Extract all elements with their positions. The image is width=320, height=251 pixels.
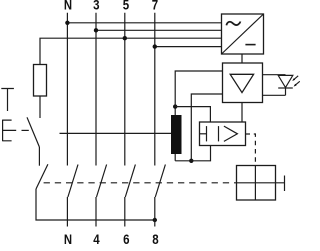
- amplifier triangle: [230, 74, 253, 92]
- node bus C junction: [123, 36, 127, 40]
- test pole contact blade: [36, 164, 48, 189]
- wire amplifier to detector: [241, 103, 243, 123]
- svg-text:8: 8: [152, 232, 158, 246]
- current transformer core line: [60, 132, 172, 134]
- wire CT top node to detector: [175, 107, 210, 122]
- main contact blade pole 7-8: [155, 165, 165, 198]
- power supply diagonal: [222, 14, 264, 54]
- svg-text:6: 6: [123, 232, 129, 246]
- conductor 6 lower segment: [124, 197, 126, 227]
- mechanical trip linkage dashed: [44, 182, 237, 184]
- main contact blade pole N: [68, 165, 78, 198]
- detector bar 2: [218, 126, 220, 141]
- trip coil armature end bar: [284, 176, 286, 192]
- test button T symbol: [1, 89, 14, 112]
- node bottom wire junction: [189, 159, 193, 163]
- svg-text:5: 5: [123, 0, 129, 14]
- wire amplifier to bottom node: [191, 94, 222, 161]
- svg-text:N: N: [64, 0, 72, 14]
- detector input stub: [200, 133, 207, 135]
- node bus A junction: [65, 21, 69, 25]
- wire CT top to amplifier: [175, 71, 222, 107]
- amplifier U2 box: [223, 63, 263, 103]
- svg-text:4: 4: [93, 232, 99, 246]
- trip coil K1 box: [237, 166, 276, 201]
- current transformer secondary winding: [171, 115, 182, 154]
- power supply AC tilde: [226, 22, 240, 26]
- wire LED to amplifier return: [263, 94, 286, 96]
- main contact blade pole 5-6: [125, 165, 135, 198]
- push button actuator symbol: [3, 120, 17, 142]
- conductor N upper segment: [66, 13, 68, 166]
- detector I> box: [200, 122, 246, 146]
- LED cathode bar: [278, 87, 293, 89]
- conductor 5 upper segment: [124, 13, 126, 166]
- wire bus D from 7 to converter: [155, 46, 222, 48]
- conductor N lower segment: [66, 197, 68, 227]
- LED D1: [278, 75, 293, 87]
- trip coil vertical line: [254, 166, 256, 201]
- svg-text:3: 3: [93, 0, 99, 14]
- wire bus C from test resistor to converter: [40, 38, 222, 64]
- conductor 4 lower segment: [95, 197, 97, 227]
- LED arrow 2: [294, 81, 300, 86]
- svg-text:N: N: [64, 232, 72, 246]
- test button contact blade: [27, 117, 39, 147]
- svg-text:7: 7: [152, 0, 158, 14]
- detector bar 1: [206, 126, 208, 141]
- LED arrow 1: [292, 76, 298, 81]
- main contact blade pole 3-4: [97, 165, 107, 198]
- wire resistor to test contact: [39, 96, 41, 118]
- node bus D junction: [153, 44, 157, 48]
- wire test pole to bottom bus: [36, 189, 155, 220]
- wire CT bottom to detector: [175, 146, 210, 161]
- wire LED cathode: [285, 88, 287, 95]
- conductor 7 upper segment: [154, 13, 156, 166]
- wire bus B from 3 to converter: [96, 29, 222, 31]
- node bus B junction: [94, 28, 98, 32]
- power supply U1 box: [222, 14, 264, 54]
- conductor 8 lower segment: [154, 197, 156, 227]
- wire CT bottom lead: [174, 154, 176, 161]
- trip coil horizontal line with armature stub: [237, 182, 285, 184]
- mechanical link actuator to test blade: [22, 129, 29, 131]
- node bottom bus junction on 8: [153, 218, 157, 222]
- resistor R test: [34, 65, 47, 97]
- wire supply to amplifier: [241, 54, 243, 63]
- conductor 3 upper segment: [95, 13, 97, 166]
- mechanical link detector to trip coil dashed: [246, 134, 256, 166]
- wire amplifier to LED anode: [263, 74, 286, 76]
- wire test contact to test pole: [38, 147, 40, 166]
- wire CT top lead: [174, 107, 176, 115]
- detector greater-than: [224, 126, 238, 141]
- node CT top junction: [173, 104, 177, 108]
- power supply DC minus: [245, 44, 255, 46]
- wire bus A from N to converter: [67, 22, 221, 24]
